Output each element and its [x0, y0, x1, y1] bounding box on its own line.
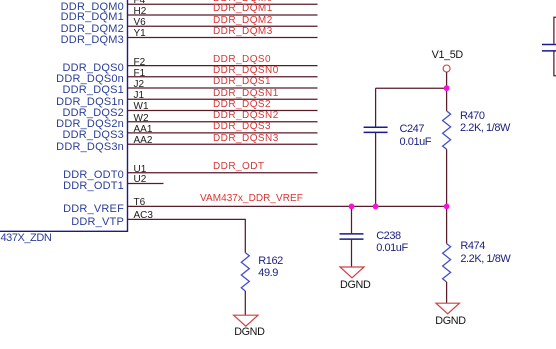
capacitor C247 plates	[364, 127, 388, 132]
ground DGND under R162	[234, 315, 258, 326]
wire pin H2 DDR_DQM1	[128, 14, 318, 16]
pin number T6	[134, 198, 146, 208]
net label VAM437x_DDR_VREF	[200, 194, 303, 204]
wire pin W1 DDR_DQS2	[128, 110, 318, 112]
pin number U1	[134, 165, 147, 175]
partial capacitor at right edge top lead	[554, 17, 556, 44]
wire R474 top lead	[446, 206, 448, 243]
pin number AC3	[134, 211, 153, 221]
wire pin AA1 DDR_DQS3	[128, 132, 318, 134]
capacitor C238 value label	[376, 230, 408, 255]
pin number W1	[134, 102, 149, 112]
wire C238 bottom lead	[351, 240, 353, 267]
wire pin AC3 down to R162	[128, 219, 245, 252]
ground label DGND under R162	[234, 327, 264, 338]
wire pin AA2 DDR_DQSN3	[128, 143, 318, 145]
net label DDR_DQS1	[213, 77, 271, 87]
pin name DDR_DQS0n	[56, 74, 124, 85]
net label DDR_DQSN3	[213, 134, 279, 144]
pin name DDR_DQS3	[62, 130, 124, 141]
wire stub pin U2	[128, 183, 164, 185]
pin name DDR_VREF	[63, 204, 124, 215]
pin number V6	[134, 18, 146, 28]
capacitor C247 value label	[400, 123, 432, 148]
wire pin W2 DDR_DQSN2	[128, 121, 318, 123]
net label DDR_ODT	[213, 162, 265, 172]
power symbol V1_5D circle	[443, 65, 450, 72]
pin name DDR_DQS1n	[56, 97, 124, 108]
partial capacitor at right edge plates	[542, 45, 556, 51]
pin number J2	[134, 80, 145, 90]
net label DDR_DQM1	[213, 4, 273, 14]
pin number AA2	[134, 136, 153, 146]
net label DDR_DQM3	[213, 27, 273, 37]
wire R470 bottom to VREF net	[446, 149, 448, 206]
ground DGND under R474	[436, 303, 459, 314]
power net label V1_5D	[432, 50, 463, 61]
net label DDR_DQSN1	[213, 89, 279, 99]
wire pin J2 DDR_DQS1	[128, 87, 318, 89]
pin number W2	[134, 114, 149, 124]
net label DDR_DQM0	[213, 0, 273, 4]
net label DDR_DQS3	[213, 122, 271, 132]
wire V1_5D circle to junction	[446, 72, 448, 88]
wire pin J1 DDR_DQSN1	[128, 98, 318, 100]
pin name DDR_DQS3n	[56, 142, 124, 153]
wire junction down to R470	[446, 88, 448, 111]
pin name DDR_DQS0	[62, 63, 124, 74]
pin number F2	[134, 58, 146, 68]
part name 437X_ZDN	[1, 233, 52, 244]
ground label DGND under R474	[435, 316, 465, 327]
resistor R474 value label	[460, 240, 510, 265]
junction dot C238 on VREF net	[349, 204, 355, 210]
wire C247 bottom lead	[375, 133, 377, 206]
pin name DDR_ODT0	[63, 170, 124, 181]
junction dot C247 on VREF net	[373, 204, 379, 210]
wire R474 bottom lead	[446, 282, 448, 303]
net label DDR_DQM2	[213, 16, 273, 26]
wire pin V6 DDR_DQM2	[128, 25, 318, 27]
IC U? symbol right/bottom edge	[0, 0, 128, 231]
ground DGND under C238	[340, 267, 364, 278]
pin name DDR_DQM2	[61, 24, 124, 35]
pin name DDR_DQS2n	[56, 119, 124, 130]
pin name DDR_ODT1	[63, 181, 124, 192]
resistor R470 zigzag	[443, 111, 451, 149]
junction dot R474 on VREF net	[444, 204, 450, 210]
pin name DDR_VTP	[71, 217, 124, 228]
resistor R470 value label	[460, 110, 510, 135]
wire C247 top lead	[375, 88, 377, 126]
pin name DDR_DQS1	[62, 85, 124, 96]
pin name DDR_DQM3	[61, 35, 124, 46]
resistor R474 zigzag	[443, 244, 451, 282]
pin number U2	[134, 175, 147, 185]
wire pin U1 DDR_ODT	[128, 172, 318, 174]
capacitor C238 plates	[340, 234, 364, 239]
net label DDR_DQS0	[213, 55, 271, 65]
pin number AA1	[134, 125, 153, 135]
pin name DDR_DQM1	[61, 12, 124, 23]
net label DDR_DQSN0	[213, 66, 279, 76]
wire R162 bottom lead	[244, 291, 246, 315]
wire junction to C247 branch	[376, 87, 447, 89]
resistor R162 value label	[258, 255, 283, 280]
wire pin F2 DDR_DQS0	[128, 65, 318, 67]
wire pin F1 DDR_DQSN0	[128, 76, 318, 78]
wire pin F4 DDR_DQM0	[128, 3, 318, 5]
resistor R162 zigzag	[241, 253, 249, 291]
ground label DGND under C238	[340, 280, 370, 291]
wire pin T6 net VAM437x_DDR_VREF	[128, 205, 447, 207]
pin number J1	[134, 91, 145, 101]
wire C238 top lead	[351, 206, 353, 233]
pin number F4	[134, 0, 146, 6]
wire pin Y1 DDR_DQM3	[128, 37, 318, 39]
pin number Y1	[134, 29, 146, 39]
net label DDR_DQS2	[213, 100, 271, 110]
net label DDR_DQSN2	[213, 111, 279, 121]
pin name DDR_DQM0	[61, 2, 124, 13]
pin number F1	[134, 69, 146, 79]
pin number H2	[134, 7, 147, 17]
pin name DDR_DQS2	[62, 108, 124, 119]
partial capacitor at right edge bottom lead	[554, 52, 556, 76]
junction dot at V1_5D branch	[444, 85, 450, 91]
